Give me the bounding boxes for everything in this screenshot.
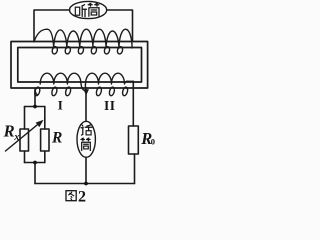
- svg-text:x: x: [13, 132, 19, 143]
- svg-text:II: II: [104, 98, 116, 113]
- svg-text:I: I: [58, 97, 63, 112]
- svg-text:R: R: [51, 129, 62, 146]
- svg-text:R: R: [3, 122, 15, 141]
- svg-text:2: 2: [78, 188, 86, 205]
- svg-text:0: 0: [151, 137, 155, 147]
